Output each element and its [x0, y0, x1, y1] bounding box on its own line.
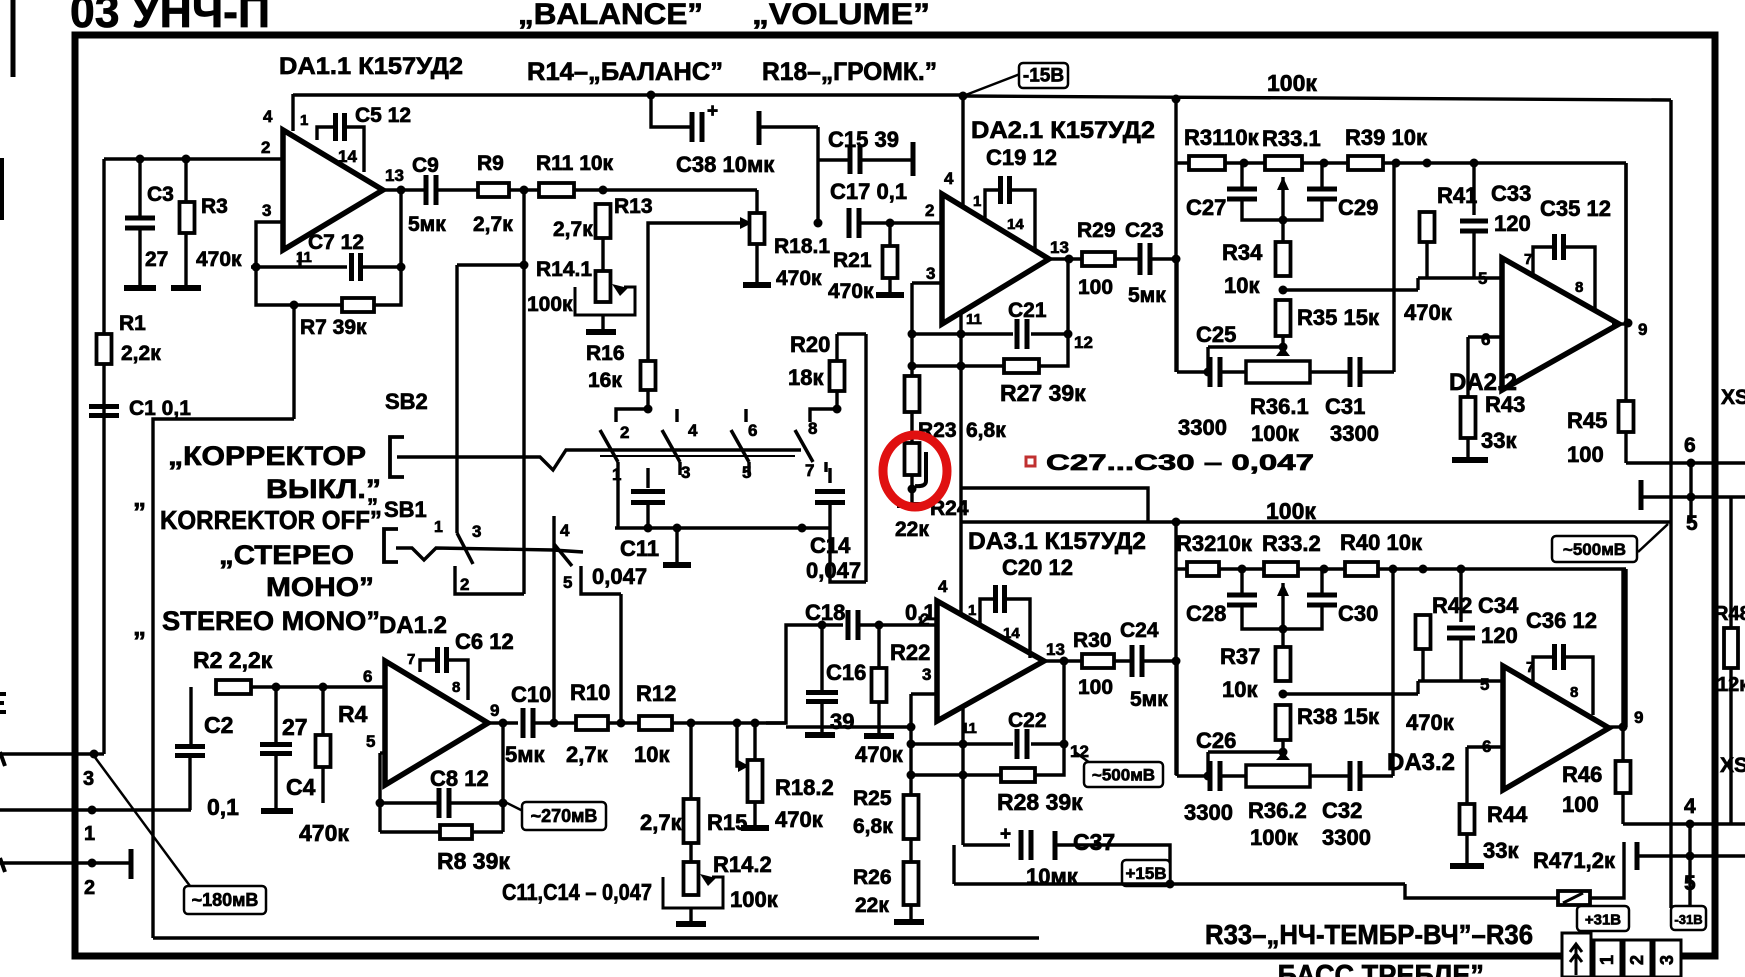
wire R48 bottom	[1729, 668, 1732, 824]
wire input node to pin2 DA1.1	[104, 157, 283, 160]
node C22 tee	[907, 740, 916, 749]
svg-text:R34: R34	[1222, 240, 1263, 265]
resistor R29	[1082, 252, 1115, 266]
capacitor C7	[352, 253, 361, 281]
wire C28 stem	[1240, 569, 1243, 593]
node pin12	[1064, 330, 1073, 339]
wire C7 line	[251, 265, 347, 268]
svg-text:R14.2: R14.2	[713, 852, 772, 877]
svg-text:R15: R15	[707, 810, 747, 835]
capacitor C5	[336, 113, 345, 141]
svg-text:4: 4	[263, 107, 273, 126]
capacitor C16	[806, 693, 838, 702]
wire XS pin4 lower	[1623, 822, 1745, 825]
svg-text:R26: R26	[853, 866, 892, 889]
svg-text:C20 12: C20 12	[1002, 555, 1073, 580]
svg-text:R35 15к: R35 15к	[1297, 305, 1380, 330]
svg-text:R40 10к: R40 10к	[1340, 530, 1423, 555]
svg-text:470к: 470к	[1404, 300, 1453, 325]
node R28 tee	[907, 771, 916, 780]
svg-text:R33.2: R33.2	[1262, 531, 1321, 556]
connector cell 2	[1624, 940, 1651, 977]
wire R13 to R14.1	[601, 238, 604, 271]
SB1 contact3 arm	[457, 533, 473, 564]
wire XS pin5 upper	[1643, 495, 1745, 498]
inner box bottom line	[153, 936, 1039, 939]
capacitor C22	[1017, 729, 1027, 759]
callout leader 270mV	[503, 801, 525, 812]
wire R41 bottom stub	[1425, 242, 1428, 278]
op-amp DA2.2	[1502, 258, 1619, 390]
svg-text:R12: R12	[636, 681, 676, 706]
capacitor C32	[1350, 761, 1360, 791]
svg-text:100к: 100к	[730, 887, 779, 912]
svg-text:R3: R3	[201, 195, 228, 218]
wire R48 top	[1729, 497, 1732, 628]
resistor R27	[1004, 359, 1039, 373]
svg-text:C25: C25	[1196, 322, 1236, 347]
svg-text:R33.1: R33.1	[1262, 126, 1321, 151]
wire C5 loop left	[317, 127, 336, 140]
resistor R37	[1276, 647, 1291, 681]
wire jog to C34 bottom row	[1416, 681, 1419, 694]
svg-text:14: 14	[1007, 216, 1024, 233]
link pin6 pin5	[1689, 463, 1692, 521]
wire pin3 network	[786, 725, 911, 728]
switch actuator bar second line	[600, 455, 795, 457]
wire R8 line left	[380, 830, 440, 833]
svg-text:C23: C23	[1125, 219, 1164, 242]
resistor R43	[1461, 397, 1476, 438]
svg-text:”: ”	[133, 497, 146, 527]
wire R18.2 stem	[753, 723, 756, 760]
wire C11 to rail	[646, 503, 649, 528]
wire C6 loop right	[447, 660, 468, 700]
wire R45 bottom stub	[1624, 432, 1627, 463]
resistor R1	[97, 334, 112, 364]
resistor R33.2 pot	[1264, 562, 1298, 576]
node pin11 R28	[959, 771, 968, 780]
wire stereo column	[522, 190, 525, 594]
op-amp DA3.1	[937, 601, 1044, 721]
svg-text:R21: R21	[833, 249, 872, 272]
svg-text:„BALANCE”: „BALANCE”	[518, 0, 703, 31]
svg-text:1: 1	[434, 519, 443, 536]
svg-text:2,7к: 2,7к	[566, 742, 609, 767]
resistor R31	[1189, 156, 1225, 170]
svg-text:R25: R25	[853, 787, 892, 810]
capacitor C21	[1017, 319, 1027, 349]
wire C6 loop left	[420, 660, 437, 672]
wire R36.1 to C31	[1310, 370, 1348, 373]
potentiometer frame R14.1	[575, 287, 635, 315]
capacitor C30	[1307, 595, 1337, 605]
svg-text:C15 39: C15 39	[828, 127, 899, 152]
node corrector R7 junction	[290, 301, 299, 310]
resistor R32	[1187, 562, 1219, 576]
wire C4 stem	[274, 687, 277, 743]
wire R38 to C26 branch	[1208, 750, 1283, 753]
resistor R13	[596, 204, 611, 238]
wire pin5 column	[378, 753, 381, 832]
svg-text:33к: 33к	[1483, 838, 1519, 863]
svg-text:DA1.2: DA1.2	[379, 612, 447, 639]
SB1 contact4 bracket	[552, 516, 555, 544]
wiper arrow R18.2	[738, 760, 749, 772]
svg-text:03 УНЧ-П: 03 УНЧ-П	[70, 0, 270, 37]
node C26 tee	[1204, 772, 1213, 781]
svg-text:”: ”	[133, 626, 146, 656]
resistor R12	[639, 716, 672, 730]
wire C15 right lead	[860, 158, 911, 161]
op-amp DA1.2	[385, 661, 488, 785]
switch SB2 bracket	[390, 437, 404, 477]
svg-text:R36.1: R36.1	[1250, 394, 1309, 419]
voltage label -15V box	[1019, 63, 1068, 88]
wire C16 ground stem	[820, 702, 823, 733]
wire pin12 to output DA3.1	[1062, 661, 1065, 744]
wire R14.1 to ground	[601, 315, 604, 330]
wire pin6 to R43	[1466, 337, 1469, 397]
capacitor C17	[849, 208, 859, 238]
svg-text:5: 5	[1684, 872, 1696, 895]
connector cell 3	[1654, 940, 1681, 977]
resistor R44	[1460, 804, 1475, 834]
svg-text:100: 100	[1078, 676, 1113, 699]
svg-text:+: +	[707, 101, 718, 122]
node contact2 top	[644, 405, 653, 414]
svg-text:DA3.1 К157УД2: DA3.1 К157УД2	[968, 528, 1146, 555]
svg-text:100к: 100к	[527, 293, 573, 316]
svg-text:11: 11	[966, 311, 982, 328]
svg-text:1: 1	[1597, 955, 1617, 965]
svg-text:2: 2	[925, 201, 934, 220]
node C16 tap	[818, 621, 827, 630]
wire C24 to tone lower	[1142, 659, 1176, 662]
svg-text:C36 12: C36 12	[1526, 608, 1597, 633]
svg-text:3300: 3300	[1330, 421, 1379, 446]
node R4 top	[319, 683, 328, 692]
svg-text:C33: C33	[1491, 181, 1531, 206]
svg-text:7: 7	[407, 651, 415, 668]
contact 2 terminal	[616, 409, 648, 422]
capacitor C37 electrode bar	[1053, 831, 1058, 860]
wire C37 line	[963, 843, 1010, 846]
wire R28 to pin12 node	[1035, 744, 1064, 775]
node SB1-5 join	[617, 719, 626, 728]
svg-text:C17 0,1: C17 0,1	[830, 179, 907, 204]
wire C31 to column	[1360, 370, 1394, 373]
node tone input lower	[1172, 657, 1181, 666]
wire R37 junction row	[1283, 692, 1418, 695]
svg-text:R41: R41	[1437, 183, 1477, 208]
capacitor C19	[1001, 176, 1010, 204]
svg-text:R2 2,2к: R2 2,2к	[193, 647, 273, 673]
svg-text:100к: 100к	[1267, 70, 1317, 96]
wire R23 to R24	[910, 412, 913, 443]
svg-text:МОНО”: МОНО”	[266, 572, 374, 602]
wire C35 loop right	[1564, 247, 1595, 310]
svg-text:3: 3	[681, 463, 690, 482]
svg-text:C9: C9	[412, 154, 439, 177]
wire C3 stem top	[138, 159, 141, 217]
wire R7 to output node	[374, 190, 401, 305]
svg-text:+: +	[1000, 824, 1011, 845]
wire R28 line	[911, 773, 1001, 776]
capacitor C2	[175, 747, 205, 756]
svg-text:470к: 470к	[828, 280, 874, 303]
node link pin5	[1687, 493, 1696, 502]
capacitor C36	[1555, 644, 1564, 670]
node R37 R38	[1279, 690, 1288, 699]
wire XS pin5 lower	[1639, 854, 1745, 857]
wire C34 bottom stub	[1459, 639, 1462, 681]
svg-text:DA2.1 К157УД2: DA2.1 К157УД2	[971, 117, 1155, 144]
svg-text:R20: R20	[790, 332, 830, 357]
svg-text:2,7к: 2,7к	[473, 213, 513, 236]
wire XS pin3 left	[0, 752, 94, 755]
svg-text:100: 100	[1078, 276, 1113, 299]
resistor R21	[883, 246, 898, 278]
wire pin12 to output	[1066, 259, 1069, 334]
slash in R47	[1563, 893, 1583, 903]
svg-text:9: 9	[1638, 320, 1647, 339]
svg-text:2: 2	[261, 138, 270, 157]
wire C32 to column	[1360, 774, 1393, 777]
wire SB1 contact4 down	[552, 544, 555, 723]
resistor R10	[576, 716, 608, 730]
svg-text:C2: C2	[204, 712, 233, 738]
node pin3 left	[90, 750, 99, 759]
wire C30 bottom	[1283, 605, 1322, 629]
svg-text:120: 120	[1481, 623, 1518, 648]
svg-text:470к: 470к	[775, 807, 824, 832]
node pin2 left	[88, 859, 97, 868]
wire R2 to pin6	[251, 685, 385, 688]
svg-text:C31: C31	[1325, 394, 1365, 419]
node R15 tap	[687, 719, 696, 728]
voltage label 180mV box	[184, 886, 266, 914]
svg-text:22к: 22к	[895, 518, 929, 541]
wire R20 to contact8	[835, 391, 838, 409]
node C25 tee	[1204, 368, 1213, 377]
wire output feedback column	[501, 723, 504, 832]
wire R38 stem	[1281, 740, 1284, 752]
node R42 top	[1419, 565, 1428, 574]
svg-text:KORREKTOR OFF”: KORREKTOR OFF”	[160, 505, 382, 535]
wire pin6 to R44	[1465, 747, 1468, 804]
wire R20 column	[864, 334, 867, 582]
node link pin4	[1686, 820, 1695, 829]
ground under R18.2	[741, 825, 769, 831]
svg-text:R18–„ГРОМК.”: R18–„ГРОМК.”	[762, 58, 937, 86]
svg-text:C38 10мк: C38 10мк	[676, 152, 775, 177]
capacitor C15	[850, 146, 860, 174]
svg-text:C22: C22	[1008, 709, 1047, 732]
wire C2 to pin1 line	[188, 756, 191, 810]
wire pin4 DA2.1	[961, 96, 964, 206]
svg-text:R39 10к: R39 10к	[1345, 125, 1428, 150]
op-amp DA1.1	[283, 130, 383, 250]
contact 1 stub	[616, 462, 619, 490]
node rail R32	[1172, 518, 1181, 527]
svg-text:5мк: 5мк	[1128, 284, 1166, 307]
wire R22 lower stem	[877, 702, 880, 733]
svg-text:0,047: 0,047	[806, 558, 861, 583]
svg-text:C27...C30 – 0,047: C27...C30 – 0,047	[1046, 450, 1314, 475]
callout leader 500mV upper	[1638, 524, 1668, 552]
svg-text:2,2к: 2,2к	[121, 342, 161, 365]
node C8 right	[499, 799, 508, 808]
capacitor C28	[1227, 595, 1257, 605]
resistor R26	[904, 862, 919, 905]
wire R2 left bend	[189, 687, 192, 746]
svg-text:C30: C30	[1338, 601, 1378, 626]
node wiper R33.1	[1279, 216, 1288, 225]
resistor R18.1	[750, 213, 765, 244]
svg-text:3: 3	[926, 264, 935, 283]
handwritten mark inside circle	[915, 452, 926, 486]
wire R20 to column	[837, 332, 866, 335]
svg-text:R18.2: R18.2	[775, 775, 834, 800]
capacitor C33	[1460, 221, 1488, 231]
svg-text:3: 3	[83, 768, 94, 790]
wire R3 stem bottom	[184, 233, 187, 286]
svg-text:13: 13	[1050, 238, 1069, 257]
wire tone column lower	[1174, 522, 1177, 775]
svg-text:„VOLUME”: „VOLUME”	[752, 0, 930, 31]
svg-text:100к: 100к	[1251, 421, 1300, 446]
resistor R33.1 pot	[1265, 156, 1302, 170]
wire tone column upper	[1174, 99, 1177, 372]
capacitor C31	[1350, 357, 1360, 387]
node pin3 col	[907, 723, 916, 732]
contact 7 stub	[824, 462, 827, 472]
wire C27 bottom	[1242, 199, 1283, 220]
wire C9 to R9	[436, 188, 478, 191]
resistor R11	[539, 183, 574, 197]
svg-text:R36.2: R36.2	[1248, 798, 1307, 823]
node pin11 C21	[957, 330, 966, 339]
svg-text:R38 15к: R38 15к	[1297, 704, 1380, 729]
resistor R28	[1001, 768, 1035, 782]
svg-text:13: 13	[385, 166, 404, 185]
wire pin3 bend up	[94, 752, 104, 755]
wire R22 stem	[877, 625, 880, 668]
SB1 contact4 arm	[554, 544, 572, 566]
capacitor C11	[631, 492, 665, 503]
capacitor C9	[426, 175, 436, 205]
svg-text:1: 1	[300, 112, 308, 129]
wire R42 bottom stub	[1421, 649, 1424, 681]
resistor R25	[904, 795, 919, 839]
node pin11 C22	[959, 740, 968, 749]
capacitor C4	[260, 745, 292, 754]
node pin11 R27	[957, 362, 966, 371]
svg-text:4: 4	[1684, 795, 1696, 818]
wire XS pin6 upper	[1626, 461, 1745, 464]
wire R33.1 wiper to R34	[1281, 177, 1284, 242]
svg-text:1: 1	[84, 823, 95, 845]
resistor R47	[1558, 891, 1590, 905]
wire C20 loop left	[980, 599, 995, 627]
svg-text:R45: R45	[1567, 408, 1607, 433]
svg-text:4: 4	[938, 577, 948, 596]
wire R3 stem top	[184, 159, 187, 202]
capacitor C26	[1210, 761, 1220, 791]
wire C5 loop right	[345, 127, 364, 172]
node rail R31	[1172, 95, 1181, 104]
svg-text:0,1: 0,1	[207, 794, 239, 820]
node C33 top	[1470, 159, 1479, 168]
wire R44 to ground	[1465, 834, 1468, 864]
svg-text:470к: 470к	[196, 248, 242, 271]
svg-text:R471,2к: R471,2к	[1533, 848, 1616, 873]
svg-text:120: 120	[1494, 211, 1531, 236]
wire C25 to R36.1	[1220, 370, 1246, 373]
svg-text:C27: C27	[1186, 195, 1226, 220]
capacitor C38 plates	[692, 112, 702, 142]
wire C36 loop right	[1564, 657, 1593, 715]
svg-text:C1 0,1: C1 0,1	[129, 397, 191, 420]
svg-text:9: 9	[490, 701, 499, 720]
link pin4 pin5 lower	[1688, 824, 1691, 906]
svg-text:R46: R46	[1562, 762, 1602, 787]
wire R40 column down	[1391, 569, 1394, 776]
svg-text:10к: 10к	[1222, 677, 1258, 702]
wire C21 line	[912, 332, 1013, 335]
capacitor C18	[848, 610, 858, 640]
wire C3 stem bottom	[138, 229, 141, 286]
svg-text:R33–„НЧ-ТЕМБР-ВЧ”–R36: R33–„НЧ-ТЕМБР-ВЧ”–R36	[1205, 919, 1533, 950]
svg-text:R8 39к: R8 39к	[437, 848, 510, 874]
svg-text:C37: C37	[1073, 829, 1115, 855]
svg-text:5: 5	[1686, 512, 1698, 535]
svg-text:R28 39к: R28 39к	[997, 789, 1083, 815]
wire corrector link vertical	[292, 305, 295, 419]
ground under R21	[876, 292, 904, 298]
scan fragment left a	[0, 694, 6, 712]
resistor R41	[1420, 212, 1435, 242]
resistor R14.2	[684, 862, 699, 895]
switch SB2 actuator link	[397, 450, 801, 470]
contact 3 stub	[678, 462, 681, 475]
node R21 top	[886, 219, 895, 228]
wire C35 loop left	[1533, 247, 1554, 277]
wire C15 C17 junction column	[816, 127, 819, 223]
svg-text:16к: 16к	[588, 369, 622, 392]
node volume tap	[520, 186, 529, 195]
capacitor C20	[996, 585, 1005, 613]
wire C14 stem top	[828, 468, 831, 483]
svg-text:C3: C3	[147, 183, 174, 206]
wire R34 junction to R41 bottom	[1283, 288, 1418, 291]
wire R4 stem	[321, 687, 324, 735]
wire R16 to switch	[646, 390, 649, 409]
svg-text:R7 39к: R7 39к	[300, 316, 367, 339]
node C17 left	[814, 219, 823, 228]
connector cell chassis	[1562, 933, 1591, 977]
ground under R44	[1450, 863, 1484, 869]
svg-text:+15В: +15В	[1125, 864, 1166, 883]
node R40 right	[1389, 565, 1398, 574]
resistor R46	[1616, 761, 1631, 793]
svg-text:C11: C11	[620, 536, 659, 561]
wire C29 bottom	[1283, 199, 1322, 220]
node R3 top	[182, 155, 191, 164]
lower channel supply rail	[961, 520, 1671, 523]
wire R30 to C24	[1114, 659, 1132, 662]
